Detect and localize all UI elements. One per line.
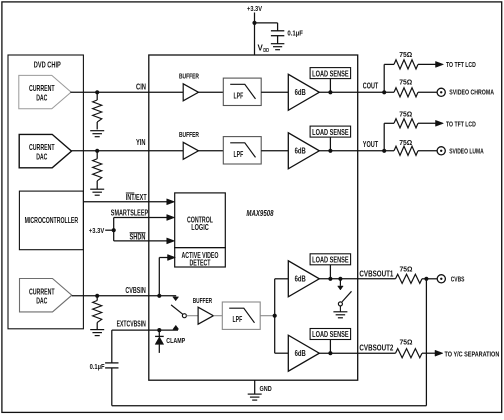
ground for C1 bbox=[271, 43, 285, 45]
svg-text:CVBSOUT2: CVBSOUT2 bbox=[359, 343, 393, 352]
box CONTROL LOGIC bbox=[175, 193, 226, 248]
wire load sense 3 stem bbox=[329, 265, 331, 279]
svg-text:LOAD SENSE: LOAD SENSE bbox=[312, 128, 349, 137]
wire COUT branch up to TFT resistor bbox=[383, 64, 385, 92]
svg-text:DD: DD bbox=[263, 48, 269, 54]
resistor R3 75 ohm COUT svideo bbox=[394, 88, 418, 97]
svg-text:75Ω: 75Ω bbox=[399, 140, 412, 147]
wire splitter vertical bbox=[274, 279, 276, 353]
capacitor C2 0.1uF coupling bbox=[105, 362, 118, 364]
arrow to TFT LCD (luma) bbox=[436, 120, 444, 126]
svg-text:6dB: 6dB bbox=[295, 87, 306, 97]
svg-text:DAC: DAC bbox=[36, 151, 47, 161]
arrow INT/EXT into control logic bbox=[167, 199, 175, 205]
wire load sense 2 stem bbox=[329, 137, 331, 151]
svg-text:CLAMP: CLAMP bbox=[166, 336, 185, 345]
node SMARTSLEEP/SHDN tie junction bbox=[112, 228, 116, 232]
buffer amp B2 bbox=[183, 142, 198, 159]
wire R5 to TFT arrow bbox=[418, 122, 436, 124]
arrow to Y/C separation bbox=[435, 350, 443, 356]
op-amp A3 6dB CVBSOUT1 bbox=[288, 261, 319, 297]
svg-text:CVBSOUT1: CVBSOUT1 bbox=[359, 269, 393, 278]
svg-text:75Ω: 75Ω bbox=[399, 111, 412, 118]
wire bottom rail bbox=[112, 405, 427, 407]
diode D1 clamp bbox=[158, 330, 160, 336]
svg-text:+3.3V: +3.3V bbox=[89, 226, 104, 235]
wire LPF2 to amp A2 bbox=[261, 150, 288, 152]
wire CIN net from DAC to buffer bbox=[70, 91, 183, 93]
svg-text:CVBS: CVBS bbox=[451, 275, 465, 284]
wire R8 to CVBS node bbox=[422, 278, 437, 280]
node load sense 3 junction bbox=[328, 277, 332, 281]
arrow to TFT LCD (chroma) bbox=[436, 61, 444, 67]
load sense block 3 bbox=[310, 254, 351, 265]
connector SVIDEO CHROMA jack bbox=[437, 88, 445, 96]
wire R9 to Y/C arrow bbox=[422, 352, 436, 354]
wire buffer3 to LPF3 bbox=[213, 315, 222, 317]
svg-text:0.1µF: 0.1µF bbox=[287, 29, 303, 38]
wire SHDN net bbox=[114, 240, 168, 242]
svg-text:LOAD SENSE: LOAD SENSE bbox=[312, 256, 349, 265]
node EXTCVBSIN junction bbox=[157, 328, 161, 332]
wire R3 to chroma connector bbox=[418, 91, 437, 93]
box ACTIVE VIDEO DETECT bbox=[175, 248, 226, 267]
svg-text:MICROCONTROLLER: MICROCONTROLLER bbox=[25, 216, 79, 225]
svg-text:6dB: 6dB bbox=[295, 348, 306, 358]
resistor R5 75 ohm YOUT TFT bbox=[394, 119, 418, 128]
wire load sense 4 stem bbox=[329, 340, 331, 354]
svg-text:6dB: 6dB bbox=[295, 146, 306, 156]
svg-text:75Ω: 75Ω bbox=[400, 339, 413, 346]
wire R6 to luma connector bbox=[418, 150, 437, 152]
svg-text:TO TFT LCD: TO TFT LCD bbox=[446, 62, 476, 69]
buffer amp B1 bbox=[183, 84, 198, 101]
svg-text:6dB: 6dB bbox=[295, 274, 306, 284]
node output switch junction bbox=[338, 277, 342, 281]
arrow SHDN into control logic bbox=[167, 238, 175, 244]
node load sense 1 junction bbox=[328, 90, 332, 94]
wire CVBSIN net from DAC bbox=[72, 295, 176, 297]
op-amp A1 6dB chroma bbox=[288, 74, 319, 110]
connector SVIDEO LUMA jack bbox=[437, 147, 445, 155]
ground for R4 bbox=[90, 188, 104, 190]
wire EXTCVBSIN drop to coupling cap bbox=[111, 330, 113, 363]
svg-text:SMARTSLEEP: SMARTSLEEP bbox=[111, 208, 149, 217]
current DAC U2 (Y channel) bbox=[19, 134, 71, 167]
resistor R8 75 ohm CVBSOUT1 bbox=[396, 274, 423, 283]
svg-text:EXTCVBSIN: EXTCVBSIN bbox=[117, 319, 146, 328]
current DAC U3 (CVBS channel) bbox=[20, 279, 72, 312]
op-amp A2 6dB luma bbox=[288, 133, 319, 169]
wire splitter to amp A3 bbox=[275, 278, 289, 280]
switch SW2 arm bbox=[342, 291, 352, 302]
node VDD junction bbox=[252, 21, 256, 25]
load sense block 4 bbox=[310, 329, 351, 340]
svg-text:LPF: LPF bbox=[234, 91, 244, 100]
wire load sense 1 stem bbox=[329, 79, 331, 93]
switch SW1 input select arm bbox=[171, 305, 183, 314]
IC MAX9508 outline bbox=[149, 55, 358, 380]
resistor R9 75 ohm CVBSOUT2 bbox=[396, 349, 423, 358]
switch contact EXTCVBSIN (arrow up) bbox=[173, 325, 179, 329]
svg-text:LOGIC: LOGIC bbox=[191, 222, 209, 232]
svg-text:DVD CHIP: DVD CHIP bbox=[34, 60, 61, 70]
arrow into active video detect bbox=[168, 255, 176, 261]
arrow SMARTSLEEP into control logic bbox=[167, 215, 175, 221]
svg-text:BUFFER: BUFFER bbox=[179, 130, 199, 139]
ground for IC GND bbox=[248, 393, 262, 395]
svg-text:BUFFER: BUFFER bbox=[179, 72, 199, 81]
resistor R2 75 ohm COUT TFT bbox=[394, 60, 418, 69]
wire YOUT net bbox=[319, 150, 394, 152]
wire switch to buffer3 bbox=[186, 315, 198, 317]
LPF block 3 bbox=[222, 302, 260, 329]
wire to bypass capacitor bbox=[255, 22, 278, 24]
resistor R4 YIN termination bbox=[96, 151, 98, 159]
svg-text:SVIDEO LUMA: SVIDEO LUMA bbox=[449, 146, 484, 155]
ground for R1 bbox=[90, 130, 104, 132]
svg-text:75Ω: 75Ω bbox=[399, 80, 412, 87]
wire INT/EXT from microcontroller bbox=[83, 201, 168, 203]
buffer amp B3 bbox=[198, 307, 213, 324]
wire +3.3V to VDD pin bbox=[254, 13, 256, 56]
svg-text:GND: GND bbox=[260, 384, 273, 393]
wire sense vertical to CVBSIN bbox=[158, 258, 160, 296]
node CVBSIN termination junction bbox=[95, 294, 99, 298]
svg-text:BUFFER: BUFFER bbox=[193, 296, 213, 305]
LPF block 1 bbox=[223, 78, 261, 105]
connector CVBS jack bbox=[437, 275, 445, 283]
svg-text:DETECT: DETECT bbox=[190, 259, 211, 268]
switch contact CVBSIN (arrow down) bbox=[173, 297, 179, 301]
svg-text:DAC: DAC bbox=[36, 295, 47, 305]
node COUT branch junction bbox=[382, 90, 386, 94]
box MICROCONTROLLER bbox=[19, 191, 83, 250]
wire +3.3V to junction bbox=[105, 229, 114, 231]
node CVBS splitter junction bbox=[273, 314, 277, 318]
svg-text:LPF: LPF bbox=[234, 150, 244, 159]
svg-text:LPF: LPF bbox=[233, 315, 243, 324]
svg-text:LOAD SENSE: LOAD SENSE bbox=[312, 330, 349, 339]
load sense block 2 bbox=[310, 126, 351, 137]
wire splitter to amp A4 bbox=[275, 352, 289, 354]
wire YIN net from DAC to buffer bbox=[72, 150, 184, 152]
wire tie vertical bbox=[113, 218, 115, 241]
node load sense 4 junction bbox=[328, 351, 332, 355]
svg-text:CIN: CIN bbox=[136, 82, 146, 91]
node YIN termination junction bbox=[95, 149, 99, 153]
svg-text:SHDN: SHDN bbox=[130, 232, 146, 241]
wire SMARTSLEEP net bbox=[114, 217, 168, 219]
wire LPF3 to splitter bbox=[260, 315, 275, 317]
node CIN termination junction bbox=[95, 90, 99, 94]
ground for R7 bbox=[90, 329, 104, 331]
svg-text:COUT: COUT bbox=[363, 82, 378, 91]
svg-text:75Ω: 75Ω bbox=[400, 266, 413, 273]
svg-text:YIN: YIN bbox=[136, 138, 146, 147]
resistor R1 CIN termination bbox=[96, 92, 98, 100]
node load sense 2 junction bbox=[328, 149, 332, 153]
svg-text:MAX9508: MAX9508 bbox=[246, 209, 274, 218]
svg-text:CVBSIN: CVBSIN bbox=[125, 286, 146, 295]
svg-text:YOUT: YOUT bbox=[363, 140, 378, 149]
wire CVBSOUT1 net bbox=[319, 278, 395, 280]
svg-text:75Ω: 75Ω bbox=[399, 52, 412, 59]
svg-text:DAC: DAC bbox=[36, 92, 47, 102]
node CVBS output junction bbox=[424, 277, 428, 281]
ground for SW2 bbox=[333, 311, 347, 313]
resistor R6 75 ohm YOUT svideo bbox=[394, 146, 418, 155]
svg-text:+3.3V: +3.3V bbox=[247, 4, 262, 13]
switch SW2 output to ground, upper contact bbox=[339, 279, 341, 286]
wire CVBS node down rail bbox=[425, 279, 427, 406]
wire SW2 to ground bbox=[339, 306, 341, 312]
wire buffer2 to LPF2 bbox=[199, 150, 224, 152]
wire GND pin bbox=[254, 380, 256, 394]
svg-text:TO TFT LCD: TO TFT LCD bbox=[446, 122, 476, 129]
node YOUT branch junction bbox=[382, 149, 386, 153]
current DAC U1 (C channel) bbox=[19, 75, 71, 108]
svg-text:LOAD SENSE: LOAD SENSE bbox=[312, 69, 349, 78]
wire active video detect sense bbox=[159, 257, 169, 259]
op-amp A4 6dB CVBSOUT2 bbox=[288, 335, 319, 371]
wire YOUT branch up to TFT resistor bbox=[383, 123, 385, 151]
box DVD CHIP bbox=[8, 55, 83, 329]
capacitor C1 0.1uF bbox=[277, 23, 279, 31]
wire COUT net bbox=[319, 91, 394, 93]
wire buffer1 to LPF1 bbox=[199, 91, 224, 93]
svg-text:TO Y/C SEPARATION: TO Y/C SEPARATION bbox=[445, 351, 500, 358]
load sense block 1 bbox=[310, 68, 351, 79]
wire EXTCVBSIN net bbox=[112, 329, 178, 331]
wire R2 to TFT arrow bbox=[418, 63, 436, 65]
LPF block 2 bbox=[223, 137, 261, 164]
svg-text:0.1µF: 0.1µF bbox=[90, 362, 105, 371]
resistor R7 CVBSIN termination bbox=[96, 296, 98, 301]
wire LPF1 to amp A1 bbox=[261, 91, 288, 93]
node CVBSIN sense junction bbox=[157, 294, 161, 298]
svg-text:INT/EXT: INT/EXT bbox=[126, 193, 147, 202]
svg-text:SVIDEO CHROMA: SVIDEO CHROMA bbox=[449, 88, 494, 97]
wire CVBSOUT2 net bbox=[319, 352, 395, 354]
